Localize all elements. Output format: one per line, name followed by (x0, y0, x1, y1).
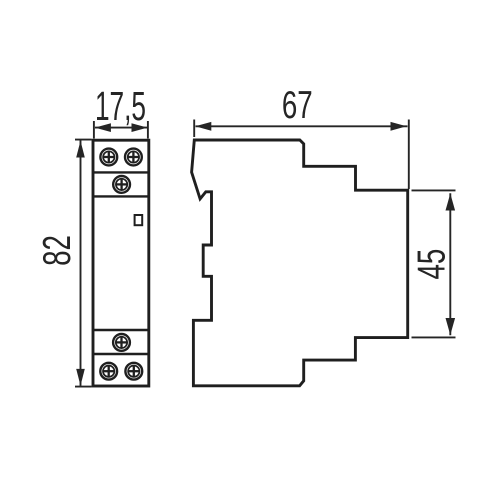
screw terminal upper-middle single (113, 176, 130, 193)
screw terminal top-left (100, 149, 117, 166)
svg-text:82: 82 (37, 235, 79, 266)
dimension 67 extension line left (193, 120, 195, 138)
dimension 17,5 extension line right (147, 121, 149, 139)
dimension 17,5 line (95, 127, 147, 129)
dimension 67 extension line right (408, 120, 410, 190)
dimension 45 extension line top (412, 189, 456, 191)
indicator window small square on front view (135, 215, 143, 225)
dimension 17,5 arrowhead right (132, 123, 148, 132)
dimension 67 arrowhead left (195, 122, 211, 131)
dimension 82 extension line top (75, 139, 92, 141)
screw terminal lower-middle single (113, 334, 130, 351)
svg-text:45: 45 (411, 249, 453, 280)
dimension 45 arrowhead top (446, 194, 456, 211)
front view outer body rectangle (93, 140, 149, 386)
dimension 82 extension line bottom (75, 386, 92, 388)
dimension 45 line (449, 193, 451, 335)
screw terminal bottom-left (100, 363, 117, 380)
screw terminal top-right (125, 149, 142, 166)
dimension 82 arrowhead top (76, 141, 85, 158)
svg-text:67: 67 (282, 85, 313, 127)
front view divider line 3 (above bottom single screw) (93, 329, 149, 331)
svg-text:17,5: 17,5 (95, 84, 146, 129)
front view divider line 4 (above bottom screw pair) (93, 353, 149, 355)
dimension 67 line (196, 125, 408, 127)
front view divider line 1 (below top screw pair) (93, 171, 149, 173)
dimension 82 line (80, 141, 82, 386)
dimension 45 arrowhead bottom (446, 318, 456, 335)
side view profile outline (192, 140, 408, 386)
dimension 17,5 extension line left (93, 121, 95, 139)
dimension 67 arrowhead right (391, 122, 407, 131)
dimension 82 arrowhead bottom (76, 369, 85, 386)
dimension 45 extension line bottom (412, 336, 456, 338)
front view divider line 2 (below top single screw) (93, 195, 149, 197)
dimension 17,5 arrowhead left (95, 123, 111, 132)
screw terminal bottom-right (125, 363, 142, 380)
